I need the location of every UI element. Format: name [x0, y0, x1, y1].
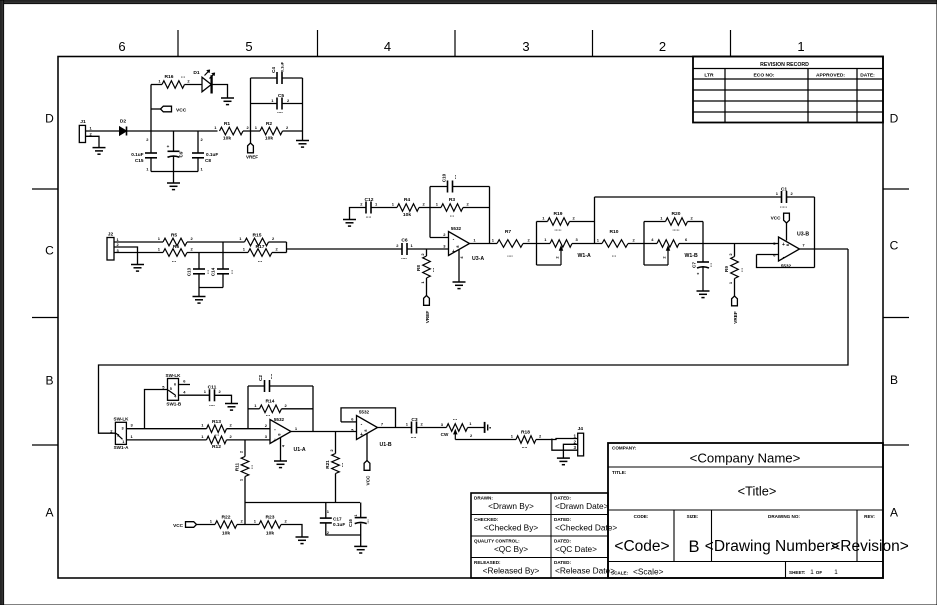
wire W1-A left branch	[536, 222, 538, 266]
svg-text:R11: R11	[235, 462, 240, 471]
op-amp U1-A 5532	[265, 417, 306, 461]
ground at C13/C14	[193, 297, 206, 304]
svg-text:.....: .....	[554, 227, 562, 233]
capacitor C8 0.1uF	[192, 131, 218, 172]
op-amp U1-B 5532	[351, 410, 392, 461]
svg-text:8: 8	[364, 429, 368, 431]
svg-text:1: 1	[354, 514, 358, 516]
svg-text:...: ...	[612, 253, 617, 259]
resistor R18	[511, 430, 542, 451]
wire R23 to ground	[281, 525, 302, 537]
svg-text:VCC: VCC	[176, 108, 187, 114]
svg-text:C: C	[45, 244, 54, 258]
svg-text:DATE:: DATE:	[860, 72, 875, 78]
wire U3-B pin6 feedback loop	[757, 255, 815, 268]
svg-text:...: ...	[453, 416, 458, 422]
svg-text:LTR: LTR	[704, 72, 714, 78]
svg-text:R15: R15	[253, 233, 262, 239]
svg-text:10k: 10k	[403, 212, 411, 218]
wire down to C13	[198, 253, 200, 270]
svg-text:1: 1	[122, 440, 124, 444]
wire VREF node up to C4/C5	[251, 78, 278, 131]
resistor R10	[597, 229, 636, 259]
wire J1 pin1 to D2 anode	[86, 130, 120, 132]
svg-text:U3-A: U3-A	[472, 256, 484, 262]
svg-text:C2: C2	[258, 375, 263, 381]
svg-text:....: ....	[522, 444, 528, 450]
svg-text:C14: C14	[211, 267, 216, 276]
svg-text:R21: R21	[325, 460, 330, 469]
wire R1 to R2 / VREF node	[243, 130, 260, 132]
svg-text:<Checked Date>: <Checked Date>	[555, 523, 617, 533]
connector J4	[573, 426, 583, 456]
svg-text:VCC: VCC	[173, 523, 184, 528]
svg-text:....: ....	[268, 373, 274, 379]
svg-text:DATED:: DATED:	[554, 496, 571, 501]
svg-text:<Code>: <Code>	[614, 538, 669, 555]
capacitor C17 0.1uF	[320, 503, 361, 536]
switch SW1-A	[110, 417, 133, 450]
svg-text:10k: 10k	[223, 136, 231, 142]
potentiometer W1-B	[644, 237, 698, 265]
power flag VCC (row D)	[161, 106, 187, 113]
svg-text:CW: CW	[441, 432, 449, 437]
ground at D1	[221, 98, 234, 105]
wire R5 to R15	[187, 241, 245, 243]
LED D1	[193, 70, 215, 94]
svg-text:3: 3	[121, 427, 123, 431]
capacitor C15 0.1uF	[131, 131, 157, 172]
svg-text:...: ...	[450, 213, 455, 219]
svg-text:B: B	[890, 373, 898, 387]
svg-text:8: 8	[786, 244, 790, 246]
capacitor C11	[204, 385, 222, 409]
svg-text:VREF: VREF	[733, 311, 738, 324]
svg-text:R16: R16	[165, 74, 174, 80]
wire J4 pin2 to ground	[563, 444, 577, 458]
svg-text:R1: R1	[224, 121, 231, 127]
svg-text:A: A	[890, 506, 898, 520]
ground at J2	[131, 265, 144, 272]
svg-text:VCC: VCC	[366, 475, 371, 486]
revision record table	[693, 57, 883, 123]
svg-text:R12: R12	[212, 444, 221, 450]
svg-text:8: 8	[278, 433, 282, 435]
svg-text:<QC By>: <QC By>	[494, 544, 528, 554]
svg-text:C13: C13	[187, 267, 192, 276]
svg-text:C7: C7	[692, 262, 697, 268]
svg-text:CHECKED:: CHECKED:	[474, 517, 499, 522]
wire W1-B left branch	[643, 222, 645, 266]
wire capacitor bottoms bus	[151, 171, 198, 173]
ground at C16	[354, 546, 367, 553]
svg-text:C16: C16	[348, 518, 353, 526]
ground at R23	[296, 537, 309, 544]
svg-text:C5: C5	[278, 93, 285, 99]
wire merge to C6	[287, 248, 403, 250]
wire SW1-A pin3 to R13	[126, 428, 206, 430]
svg-text:<Drawn By>: <Drawn By>	[488, 501, 534, 511]
svg-text:0.1uF: 0.1uF	[280, 61, 285, 72]
svg-text:1: 1	[810, 569, 814, 576]
svg-text:6: 6	[174, 383, 176, 387]
wire cap bottoms to ground	[199, 288, 223, 297]
svg-text:R5: R5	[171, 233, 178, 239]
svg-text:J4: J4	[578, 426, 584, 432]
wire CW wiper to R18	[455, 439, 516, 441]
capacitor C5	[271, 93, 290, 115]
svg-text:...: ...	[266, 412, 271, 418]
svg-text:SW1-B: SW1-B	[166, 402, 181, 407]
svg-text:....: ....	[209, 402, 215, 408]
ground at U1-A	[274, 461, 287, 468]
svg-text:.....: .....	[780, 204, 788, 210]
svg-text:U1-A: U1-A	[294, 447, 306, 453]
wire U1-A output to U1-B	[291, 431, 357, 433]
svg-text:4: 4	[384, 39, 391, 54]
svg-text:+: +	[782, 242, 785, 248]
wire R18 to J4 pin1	[536, 439, 578, 440]
svg-text:1: 1	[797, 39, 804, 54]
svg-text:R14: R14	[266, 399, 275, 405]
resistor R20	[644, 211, 703, 233]
svg-text:DATED:: DATED:	[554, 539, 571, 544]
svg-text:REV:: REV:	[864, 514, 875, 519]
svg-text:10k: 10k	[266, 531, 274, 537]
wire R13 to U1-A pin2	[227, 428, 271, 430]
potentiometer W1-A	[537, 237, 592, 265]
feedback capacitor C10	[430, 173, 490, 207]
op-amp U3-A 5532	[443, 226, 484, 282]
svg-text:<Title>: <Title>	[738, 484, 777, 499]
resistor R17	[243, 244, 279, 264]
resistor R13	[201, 419, 232, 438]
svg-text:J2: J2	[108, 232, 114, 238]
svg-text:R8: R8	[416, 265, 421, 271]
svg-text:<Checked By>: <Checked By>	[484, 523, 539, 533]
svg-text:...: ...	[708, 262, 714, 267]
svg-text:QUALITY CONTROL:: QUALITY CONTROL:	[474, 539, 520, 544]
wire C3 to potentiometer CW	[417, 427, 447, 429]
ground at C11	[225, 404, 238, 411]
svg-text:C12: C12	[365, 197, 374, 203]
svg-text:<Revision>: <Revision>	[831, 538, 909, 555]
wire R12 to U1-A pin3	[227, 439, 271, 441]
svg-text:VREF: VREF	[425, 311, 430, 324]
svg-text:5: 5	[245, 39, 252, 54]
svg-text:....: ....	[401, 255, 407, 261]
svg-text:C17: C17	[333, 517, 342, 522]
resistor R8 (to VREF)	[416, 249, 436, 296]
svg-text:<Released By>: <Released By>	[483, 566, 540, 576]
wire U3-A output to R7	[470, 208, 498, 244]
resistor R1 10k	[214, 121, 249, 142]
svg-text:U1-B: U1-B	[380, 442, 392, 448]
svg-text:...: ...	[339, 462, 345, 467]
svg-text:R4: R4	[404, 197, 411, 203]
ground at U3-A	[453, 282, 466, 289]
svg-text:3: 3	[522, 39, 529, 54]
svg-text:...: ...	[172, 258, 177, 264]
connector J1	[79, 119, 92, 143]
svg-text:C8: C8	[205, 158, 211, 163]
resistor R21 (to bias bus)	[325, 432, 345, 503]
wire C4 to right branch	[282, 78, 303, 131]
svg-text:D: D	[45, 112, 54, 126]
svg-text:C10: C10	[442, 173, 447, 182]
wire down to C14	[222, 242, 224, 269]
svg-text:U3-B: U3-B	[797, 232, 809, 238]
svg-text:VCC: VCC	[771, 216, 782, 221]
svg-text:...: ...	[249, 464, 255, 469]
electrolytic capacitor C7 to ground	[692, 244, 714, 291]
svg-text:SCALE:: SCALE:	[611, 571, 629, 576]
svg-text:DATED:: DATED:	[554, 517, 571, 522]
wire R22 to R23	[237, 524, 259, 526]
ground at C7	[697, 291, 710, 298]
net flag VREF (U3-B)	[732, 296, 738, 324]
svg-text:D1: D1	[193, 70, 200, 76]
resistor R22 10k	[210, 515, 244, 537]
capacitor C6	[396, 238, 413, 262]
wire bus to ground	[173, 172, 175, 183]
wire VREF node down to flag	[250, 131, 252, 143]
svg-text:....: ....	[507, 253, 513, 259]
svg-text:SIZE:: SIZE:	[687, 514, 699, 519]
power flag VCC (U1-B)	[364, 461, 370, 486]
power flag VCC (bias)	[173, 522, 196, 528]
wire VCC flag to R22	[197, 524, 216, 526]
net flag VREF (U3-A)	[424, 296, 430, 324]
svg-text:5532: 5532	[359, 410, 370, 415]
wire J1 pin2 to ground	[86, 136, 100, 147]
svg-text:<Drawing Number>: <Drawing Number>	[705, 538, 839, 555]
svg-text:DATED:: DATED:	[554, 560, 571, 565]
svg-text:B: B	[45, 374, 53, 388]
ground at J1	[93, 148, 106, 155]
wire W1-B to U3-B pin5	[679, 222, 779, 244]
resistor R15	[239, 233, 275, 246]
resistor R19	[537, 211, 595, 233]
svg-text:2: 2	[659, 39, 666, 54]
svg-text:J1: J1	[80, 119, 86, 125]
svg-text:5532: 5532	[274, 417, 285, 422]
op-amp U3-B 5532	[773, 223, 809, 269]
svg-text:R7: R7	[505, 229, 512, 235]
capacitor C1	[776, 187, 794, 210]
svg-text:8: 8	[456, 245, 460, 247]
svg-text:<Company Name>: <Company Name>	[690, 451, 801, 466]
wire U1-B pin6 feedback loop	[341, 408, 396, 428]
resistor R3	[436, 197, 470, 219]
wire R2 to ground node	[283, 131, 303, 140]
svg-text:....: ....	[277, 109, 283, 115]
svg-text:ECO NO:: ECO NO:	[754, 72, 775, 78]
svg-text:R19: R19	[554, 211, 563, 217]
capacitor C4 0.1uF	[271, 61, 285, 84]
svg-text:<Drawn Date>: <Drawn Date>	[555, 501, 609, 511]
wire SW1-B pin4 to C11	[179, 394, 210, 396]
electrolytic capacitor C16	[348, 503, 370, 547]
svg-text:+: +	[360, 432, 363, 438]
svg-text:C11: C11	[208, 385, 217, 391]
resistor R12	[201, 434, 232, 450]
bias bus wire	[245, 503, 360, 525]
svg-text:R6: R6	[173, 244, 180, 250]
svg-text:10k: 10k	[265, 136, 273, 142]
svg-text:R2: R2	[266, 121, 273, 127]
potentiometer CW (volume)	[441, 416, 473, 440]
resistor R4 10k	[392, 197, 426, 218]
diode D2	[120, 119, 127, 136]
resistor R23 10k	[254, 515, 288, 537]
wire J4 pin3 loop	[552, 439, 578, 451]
wire D2 cathode to VCC node	[127, 130, 218, 132]
svg-text:R9: R9	[724, 266, 729, 272]
svg-text:...: ...	[181, 74, 186, 80]
svg-text:....: ....	[366, 214, 372, 220]
ground at J4	[557, 458, 570, 465]
svg-text:R10: R10	[610, 229, 619, 235]
svg-text:<QC Date>: <QC Date>	[555, 544, 597, 554]
svg-text:D2: D2	[120, 119, 127, 125]
svg-text:2: 2	[117, 433, 119, 437]
connector J2	[107, 232, 120, 261]
wire SW1-A pin1 to R12	[126, 439, 206, 441]
svg-text:COMPANY:: COMPANY:	[612, 446, 637, 451]
capacitor C12 to ground	[350, 197, 379, 220]
wire J2 pin2 to ground	[114, 247, 138, 264]
svg-text:...: ...	[258, 258, 263, 264]
svg-text:CODE:: CODE:	[634, 514, 649, 519]
electrolytic capacitor C9	[167, 131, 184, 172]
svg-text:+: +	[274, 438, 277, 444]
wire VCC node up to R16	[150, 85, 152, 132]
feedback capacitor C2	[248, 373, 313, 431]
wire J2 pin3 to R6	[114, 252, 163, 254]
svg-text:DRAWING NO:: DRAWING NO:	[768, 514, 800, 519]
svg-text:C: C	[890, 239, 899, 253]
svg-text:C15: C15	[135, 158, 144, 163]
wire C1 to output branch	[787, 197, 815, 268]
svg-text:R17: R17	[256, 244, 265, 250]
svg-text:+: +	[452, 249, 455, 255]
svg-text:....: ....	[411, 434, 417, 440]
wire R3 to output node	[463, 207, 490, 209]
capacitor C3	[406, 417, 424, 440]
title block	[471, 443, 909, 578]
wire J2 pin1 to R5	[114, 241, 163, 243]
wire C12 to R4	[371, 207, 397, 209]
svg-text:...: ...	[229, 269, 235, 274]
svg-text:<Scale>: <Scale>	[633, 567, 664, 577]
svg-text:...: ...	[452, 174, 458, 179]
resistor R11 (to bias bus)	[235, 440, 255, 503]
svg-text:SW1-A: SW1-A	[114, 445, 129, 450]
svg-text:<Release Date>: <Release Date>	[555, 566, 615, 576]
svg-text:R23: R23	[266, 515, 275, 521]
svg-text:R22: R22	[222, 515, 231, 521]
resistor R7	[492, 229, 531, 259]
svg-text:R20: R20	[672, 211, 681, 217]
svg-text:C3: C3	[411, 417, 418, 423]
wire R4 to R3	[419, 207, 441, 209]
ground at filter caps	[167, 183, 180, 190]
resistor R5	[158, 233, 194, 246]
ground at C12	[343, 220, 356, 227]
net flag VREF (row D)	[246, 143, 258, 159]
resistor R16	[151, 74, 202, 89]
svg-text:...: ...	[430, 267, 436, 272]
wire D1 to ground	[212, 85, 228, 98]
svg-text:A: A	[45, 506, 53, 520]
svg-text:R3: R3	[449, 197, 456, 203]
wire R10 to W1-B	[628, 243, 657, 245]
svg-text:5: 5	[170, 387, 172, 391]
svg-text:0.1uF: 0.1uF	[206, 152, 218, 157]
svg-text:B: B	[688, 538, 699, 556]
svg-text:SHEET:: SHEET:	[789, 570, 806, 575]
svg-text:0.1uF: 0.1uF	[131, 152, 143, 157]
resistor R2 10k	[255, 121, 289, 142]
svg-text:.....: .....	[672, 227, 680, 233]
svg-text:W1-A: W1-A	[578, 253, 592, 259]
wire to VCC flag	[151, 108, 161, 110]
svg-text:D: D	[890, 112, 899, 126]
power flag VCC (U3-B)	[771, 213, 790, 223]
svg-text:...: ...	[364, 519, 370, 524]
capacitor C14	[211, 267, 235, 287]
switch SW1-B	[162, 373, 190, 407]
svg-text:C1: C1	[781, 187, 788, 193]
resistor R6	[158, 244, 194, 264]
wire U1-B output to C3	[378, 427, 412, 429]
svg-text:R13: R13	[212, 419, 221, 425]
resistor R14	[248, 399, 313, 419]
wire CW pin1 stub	[468, 422, 491, 433]
svg-text:RELEASED:: RELEASED:	[474, 560, 501, 565]
svg-text:W1-B: W1-B	[685, 253, 699, 259]
wire W1-A to right branch	[572, 197, 602, 244]
resistor R9 (to VREF)	[724, 244, 745, 297]
wire top feedback to C1	[595, 196, 782, 198]
svg-text:APPROVED:: APPROVED:	[816, 72, 845, 78]
wire up to SW1-B	[145, 390, 168, 429]
wire R7 to W1-A	[523, 243, 550, 245]
svg-text:TITLE:: TITLE:	[612, 470, 627, 475]
svg-text:6: 6	[118, 39, 125, 54]
svg-text:R18: R18	[521, 430, 530, 436]
svg-text:C4: C4	[271, 67, 276, 73]
svg-text:1: 1	[834, 569, 838, 576]
wire output down and back to row B	[99, 249, 849, 433]
svg-text:0.1uF: 0.1uF	[333, 522, 345, 527]
svg-text:...: ...	[739, 267, 745, 272]
svg-text:C9: C9	[179, 151, 184, 157]
svg-text:DRAWN:: DRAWN:	[474, 496, 493, 501]
ground at R2	[296, 141, 309, 148]
wire C11 to ground	[215, 395, 232, 403]
wire R6 to R17	[187, 252, 248, 254]
svg-text:VREF: VREF	[246, 154, 258, 159]
capacitor C13	[187, 267, 211, 287]
svg-text:SW-LK: SW-LK	[166, 373, 182, 378]
wire feedback to U3-A pin2	[430, 208, 449, 238]
wire U3-B output	[800, 248, 849, 250]
svg-text:OF: OF	[816, 570, 823, 575]
svg-text:SW-LK: SW-LK	[114, 417, 130, 422]
wire merge R15/R17	[269, 242, 287, 253]
